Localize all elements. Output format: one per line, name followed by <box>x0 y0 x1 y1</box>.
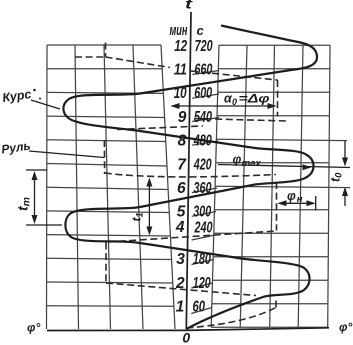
right grid vertical lines <box>211 45 330 327</box>
phi max arrow line extended right as t0 upper boundary <box>218 164 350 170</box>
t0 measuring arrows <box>342 141 348 206</box>
rudder dashed: shift line below t1 arrow <box>108 231 276 242</box>
course (heading) oscillation curve <box>63 26 317 330</box>
svg-text:300: 300 <box>193 204 211 221</box>
ink speck <box>33 89 36 92</box>
svg-text:420: 420 <box>193 156 212 173</box>
svg-text:t1: t1 <box>130 212 145 221</box>
svg-text:9: 9 <box>178 109 187 126</box>
tick underlines below seconds numbers (sagging row extensions near axis) <box>191 71 219 314</box>
rudder dashed: shift toward axis near 660 row <box>106 57 171 68</box>
svg-text:7: 7 <box>177 156 187 173</box>
svg-text:Курс: Курс <box>1 87 32 105</box>
svg-text:600: 600 <box>194 85 212 102</box>
rudder dashed: segment left of axis near 520 level <box>117 126 203 130</box>
svg-text:240: 240 <box>194 219 213 236</box>
svg-text:φ°: φ° <box>339 320 352 334</box>
svg-text:8: 8 <box>178 133 187 150</box>
central vertical time axis t <box>186 12 191 329</box>
left grid horizontal lines <box>47 45 174 306</box>
svg-text:4: 4 <box>175 219 185 236</box>
rudder dashed: initial swing from origin <box>186 308 276 329</box>
t_m boundary lines and double-headed arrow <box>26 170 62 225</box>
svg-text:120: 120 <box>193 275 211 292</box>
rudder dashed: segment under 540 row <box>194 119 288 122</box>
rudder dashed: long sagging shift line above t1 arrow <box>105 173 276 177</box>
horizontal baseline (phi axis) <box>47 328 329 331</box>
svg-text:=Δφ: =Δφ <box>239 92 271 106</box>
rudder dashed: top horizontal stub <box>75 56 106 58</box>
seconds scale numbers 720..60 <box>193 38 213 316</box>
right grid horizontal lines (rows 480s and 360s extended right for t0 marks) <box>211 45 350 327</box>
svg-text:t: t <box>185 0 194 12</box>
svg-text:мин: мин <box>170 22 188 39</box>
rudder dashed: right vertical hold (600-540) <box>277 80 279 117</box>
left grid vertical lines <box>47 45 176 329</box>
svg-text:11: 11 <box>174 62 187 79</box>
svg-text:2: 2 <box>175 275 185 292</box>
rudder dashed: left vertical hold beside grid line <box>103 140 105 174</box>
rudder dashed: shift line toward lower-right bulge <box>106 283 256 296</box>
t_1 double-headed arrow <box>146 178 152 236</box>
svg-text:180: 180 <box>193 251 211 268</box>
svg-text:tm: tm <box>15 197 33 211</box>
svg-text:с: с <box>197 23 205 38</box>
rudder dashed: left vertical hold (240-120 rows) <box>105 243 107 283</box>
svg-text:360: 360 <box>194 180 212 197</box>
rudder dashed: top vertical at left position <box>105 43 107 58</box>
alpha0 double-headed arrow <box>171 103 277 109</box>
svg-text:φmax: φmax <box>233 153 262 169</box>
svg-text:540: 540 <box>194 109 212 126</box>
svg-text:3: 3 <box>176 251 185 268</box>
Rul callout line <box>29 151 104 158</box>
svg-text:60: 60 <box>193 299 206 316</box>
svg-text:480: 480 <box>193 133 212 150</box>
svg-text:12: 12 <box>174 38 187 55</box>
svg-text:0: 0 <box>182 330 190 345</box>
rudder dashed: shift from axis to right position <box>191 71 278 80</box>
svg-text:t0: t0 <box>329 172 345 182</box>
svg-text:1: 1 <box>176 299 185 316</box>
minutes scale numbers 12..1 <box>174 38 188 316</box>
svg-text:Руль: Руль <box>0 139 31 157</box>
ink speck <box>39 98 41 100</box>
svg-text:720: 720 <box>195 38 213 55</box>
svg-text:660: 660 <box>194 62 212 79</box>
svg-text:10: 10 <box>174 85 187 102</box>
column headers: min / s <box>170 22 205 39</box>
svg-text:5: 5 <box>177 204 186 221</box>
Kurs callout line <box>31 100 60 109</box>
rudder dashed: small vertical tick at end of initial swing <box>275 297 277 308</box>
rudder dashed: right vertical hold (under phi_n) <box>276 182 278 231</box>
phi_n double-headed arrow with end tick <box>278 196 316 211</box>
svg-text:6: 6 <box>177 180 186 197</box>
svg-text:φ°: φ° <box>27 321 40 335</box>
